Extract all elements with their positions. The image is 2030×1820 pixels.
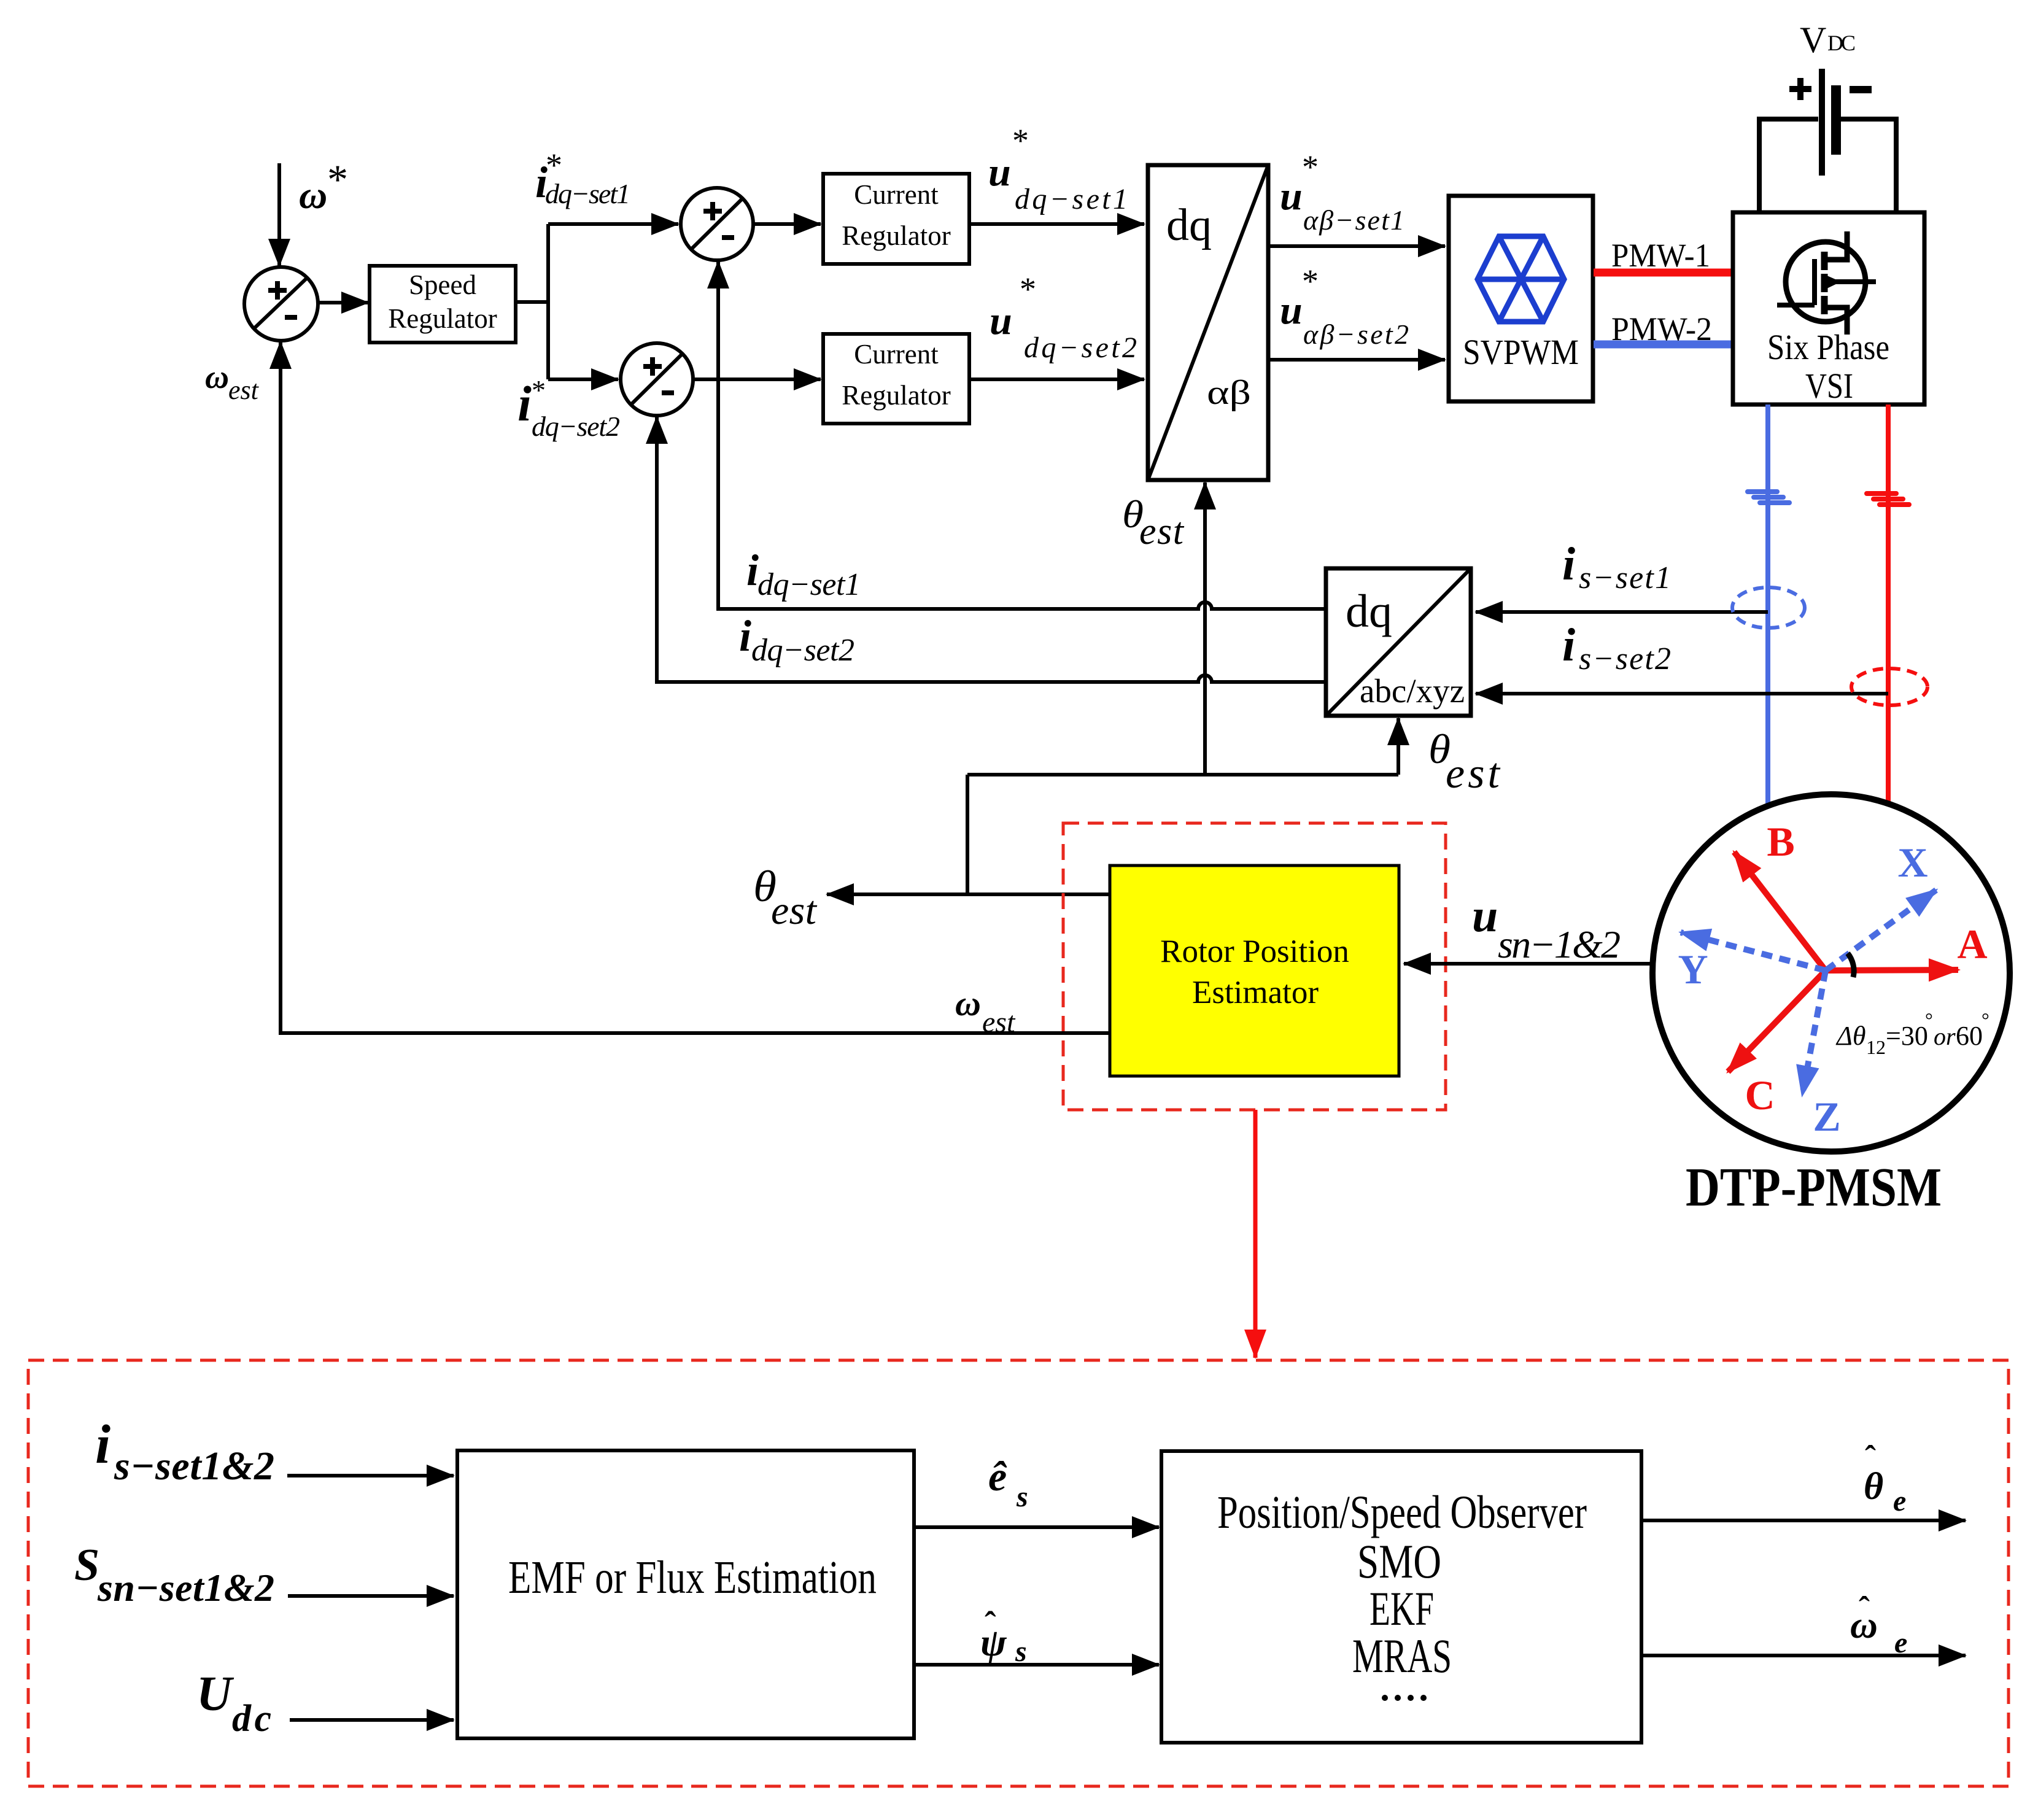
transistor MOSFET icon	[1777, 231, 1876, 335]
phasor X blue dashed	[1826, 890, 1936, 970]
node phase label C	[1745, 1072, 1775, 1118]
svg-text:°: °	[1925, 1009, 1933, 1031]
svg-text:i: i	[95, 1414, 110, 1475]
wire theta_e output	[1641, 1519, 1966, 1522]
block dq to alpha-beta transform	[1148, 165, 1268, 480]
wire omega_e output	[1641, 1654, 1966, 1657]
node phase label Y	[1678, 946, 1708, 993]
svg-text:u: u	[988, 150, 1011, 195]
node phase label B	[1767, 818, 1794, 865]
node e_s hat label	[988, 1453, 1028, 1513]
node PMW-1 label	[1611, 237, 1710, 274]
node phase label X	[1897, 839, 1927, 886]
svg-text:60: 60	[1956, 1021, 1983, 1051]
block EMF or Flux Estimation	[457, 1450, 914, 1738]
svg-text:EMF or Flux Estimation: EMF or Flux Estimation	[508, 1552, 877, 1603]
block Position/Speed Observer	[1161, 1451, 1641, 1743]
svg-text:αβ: αβ	[1207, 374, 1251, 412]
svg-text:B: B	[1767, 818, 1794, 865]
block Rotor Position Estimator	[1110, 865, 1399, 1076]
block SVPWM	[1449, 196, 1593, 401]
wire omega_est feedback to S1	[281, 342, 1110, 1033]
svg-text:est: est	[982, 1006, 1016, 1039]
summing junction S2	[681, 188, 753, 260]
phasor A red	[1826, 970, 1958, 970]
wire i_s-set1 into dq/abc block	[1476, 610, 1768, 614]
wire branch to S3	[548, 378, 618, 381]
svg-text:°: °	[1982, 1009, 1989, 1031]
wire PMW-1 red	[1594, 269, 1733, 277]
svg-text:u: u	[1280, 288, 1303, 333]
block Current Regulator 1	[823, 174, 969, 264]
svg-text:U: U	[196, 1667, 234, 1721]
svg-text:Current: Current	[854, 339, 939, 370]
wire U_dc input to EMF block	[290, 1718, 454, 1722]
svg-text:*: *	[327, 156, 348, 203]
node i_s-set1&2 label	[95, 1414, 274, 1489]
node VDC label	[1800, 20, 1856, 60]
svg-text:S: S	[74, 1540, 99, 1590]
sensor ellipse red on i_s-set2	[1851, 668, 1927, 705]
node omega* label	[299, 156, 348, 217]
node delta theta label	[1835, 1009, 1989, 1058]
svg-text:=30: =30	[1886, 1021, 1928, 1051]
svg-text:C: C	[1745, 1072, 1775, 1118]
svg-text:ω: ω	[205, 358, 229, 395]
wire branch to S2	[548, 222, 678, 226]
svg-text:*: *	[1020, 271, 1036, 308]
wire theta_est up into abc/xyz	[1397, 718, 1400, 775]
svg-text:SMO: SMO	[1357, 1535, 1441, 1588]
svg-text:sn−set1&2: sn−set1&2	[97, 1566, 274, 1609]
svg-text:e: e	[1893, 1485, 1906, 1517]
node omega_e hat label	[1850, 1590, 1907, 1659]
svg-text:Y: Y	[1678, 946, 1708, 993]
wire i_s-set2 into dq/abc block	[1476, 692, 1888, 695]
node S_sn-set1&2 label	[74, 1540, 274, 1609]
svg-text:dq−set2: dq−set2	[751, 633, 854, 668]
svg-text:i: i	[746, 546, 759, 595]
wire i_dq-set2 feedback	[657, 417, 1326, 682]
wire red arrow estimator to lower box	[1253, 1110, 1258, 1358]
wire S_sn input to EMF block	[288, 1594, 454, 1598]
svg-text:or: or	[1934, 1023, 1956, 1050]
svg-text:e: e	[1894, 1627, 1907, 1659]
svg-text:Z: Z	[1813, 1093, 1840, 1140]
motor DTP-PMSM circle	[1652, 794, 2010, 1152]
svg-text:ˆ: ˆ	[1865, 1439, 1876, 1476]
node DTP-PMSM label	[1686, 1157, 1942, 1218]
node u*ab-set1 label	[1280, 149, 1404, 236]
wire S3 to Current Regulator 2	[693, 378, 821, 381]
svg-text:i: i	[739, 611, 751, 660]
svg-text:DTP-PMSM: DTP-PMSM	[1686, 1157, 1942, 1218]
node i_s-set1 label	[1562, 538, 1671, 595]
wire blue phase lines VSI to motor	[1765, 405, 1770, 810]
battery VDC	[1789, 69, 1872, 176]
wire u_sn into estimator	[1404, 962, 1652, 966]
svg-text:V: V	[1800, 20, 1826, 60]
node theta_est label under dq/ab	[1122, 492, 1185, 552]
angle arc	[1848, 953, 1854, 977]
phasor Y blue dashed	[1681, 932, 1826, 970]
node omega_est label right	[955, 983, 1016, 1039]
node i*dq-set2 label	[517, 374, 620, 442]
node u*ab-set2 label	[1280, 263, 1409, 350]
sensor ellipse blue on i_s-set1	[1732, 587, 1805, 628]
sensor marks red	[1867, 494, 1909, 505]
svg-text:dq−set1: dq−set1	[757, 567, 861, 602]
wire Speed Regulator output to branch junction	[516, 300, 550, 304]
dashed box sensorless algorithm detail	[28, 1360, 2009, 1786]
node i_s-set2 label	[1562, 619, 1671, 676]
dashed box rotor position estimator	[1063, 823, 1446, 1110]
wire battery to VSI	[1759, 119, 1896, 212]
node i_dq-set2 label	[739, 611, 854, 668]
hexagon space-vector icon	[1478, 236, 1564, 322]
svg-text:dq−set1: dq−set1	[545, 178, 630, 209]
svg-text:VSI: VSI	[1805, 366, 1853, 406]
node theta_est label right of arrow	[1428, 726, 1501, 797]
svg-text:s: s	[1015, 1635, 1027, 1668]
block Six Phase VSI	[1733, 212, 1924, 406]
svg-text:Estimator: Estimator	[1192, 975, 1319, 1010]
svg-text:PMW-2: PMW-2	[1611, 311, 1712, 347]
node theta_e hat label	[1864, 1439, 1906, 1517]
block Speed Regulator	[370, 266, 516, 343]
svg-text:ê: ê	[988, 1453, 1007, 1500]
node PMW-2 label	[1611, 311, 1712, 347]
wire e_s to observer	[914, 1525, 1159, 1529]
svg-text:A: A	[1957, 921, 1987, 967]
svg-text:dq−set2: dq−set2	[532, 411, 620, 442]
svg-text:Rotor Position: Rotor Position	[1160, 934, 1349, 969]
svg-text:DC: DC	[1827, 31, 1856, 55]
svg-text:dq: dq	[1346, 586, 1392, 637]
wire branch vertical	[546, 224, 550, 379]
svg-text:ω: ω	[299, 173, 327, 217]
svg-text:Current: Current	[854, 179, 939, 210]
svg-text:u: u	[990, 298, 1012, 343]
wire dq/ab out2 to SVPWM	[1268, 358, 1445, 362]
svg-text:*: *	[1302, 149, 1319, 185]
svg-text:Regulator: Regulator	[842, 380, 950, 411]
wire S1 to Speed Regulator	[318, 301, 368, 304]
svg-text:s−set1: s−set1	[1579, 560, 1671, 595]
phasor C red	[1728, 970, 1826, 1072]
wire i_s input to EMF block	[287, 1474, 454, 1477]
svg-text:sn−1&2: sn−1&2	[1498, 923, 1621, 966]
svg-text:s: s	[1016, 1481, 1028, 1513]
block dq to abc/xyz transform	[1326, 568, 1471, 716]
node phase label A	[1957, 921, 1987, 967]
wire theta_est from estimator with left arrow	[827, 893, 1110, 896]
wire theta_est drop from distribution	[966, 775, 969, 894]
svg-text:s−set2: s−set2	[1579, 641, 1671, 676]
wire psi_s to observer	[914, 1663, 1159, 1667]
svg-text:i: i	[517, 376, 532, 432]
svg-text:i: i	[1562, 538, 1575, 590]
node u_sn-1&2 label	[1472, 890, 1621, 966]
svg-text:est: est	[1446, 750, 1501, 797]
wire S2 to Current Regulator 1	[753, 222, 821, 226]
svg-text:Six Phase: Six Phase	[1767, 327, 1889, 367]
svg-text:s−set1&2: s−set1&2	[114, 1444, 274, 1489]
svg-text:MRAS: MRAS	[1352, 1629, 1452, 1683]
svg-text:Speed: Speed	[409, 269, 476, 300]
svg-text:ˆ: ˆ	[1859, 1590, 1870, 1627]
wire dq/ab out1 to SVPWM	[1268, 244, 1445, 248]
node i*dq-set1 label	[535, 147, 630, 209]
svg-text:PMW-1: PMW-1	[1611, 237, 1710, 274]
wire red phase lines VSI to motor	[1886, 405, 1891, 808]
svg-text:ω: ω	[955, 983, 981, 1023]
node u*dq-set1 label	[988, 122, 1128, 215]
svg-text:X: X	[1897, 839, 1927, 886]
svg-text:est: est	[771, 888, 818, 933]
node phase label Z	[1813, 1093, 1840, 1140]
svg-text:Position/Speed Observer: Position/Speed Observer	[1217, 1487, 1587, 1538]
summing junction S3	[621, 343, 693, 416]
node i_dq-set1 label	[746, 546, 861, 602]
svg-text:Δθ: Δθ	[1835, 1021, 1865, 1051]
wire CR2 to dq/ab block	[969, 378, 1144, 381]
wire PMW-2 blue	[1594, 341, 1733, 349]
svg-text:est: est	[1139, 511, 1185, 552]
svg-text:ˆ: ˆ	[985, 1605, 996, 1643]
summing junction S1	[244, 267, 318, 341]
svg-text:u: u	[1472, 890, 1498, 942]
phasor B red	[1734, 852, 1826, 970]
svg-text:EKF: EKF	[1369, 1582, 1434, 1635]
wire i_dq-set1 feedback	[718, 261, 1326, 609]
phasor Z blue dashed	[1802, 970, 1826, 1095]
svg-text:Regulator: Regulator	[842, 220, 950, 251]
svg-text:12: 12	[1866, 1036, 1886, 1058]
node U_dc label	[196, 1667, 271, 1740]
wire CR1 to dq/ab block	[969, 222, 1144, 226]
svg-text:SVPWM: SVPWM	[1463, 332, 1579, 372]
node u*dq-set2 label	[990, 271, 1137, 364]
svg-text:dq: dq	[1166, 200, 1212, 250]
node omega_est label left	[205, 358, 260, 405]
svg-text:est: est	[228, 375, 260, 405]
svg-text:Regulator: Regulator	[388, 303, 497, 334]
wire omega* reference input	[277, 163, 281, 266]
svg-text:abc/xyz: abc/xyz	[1360, 672, 1465, 710]
wire theta_est distribution horizontal	[967, 773, 1398, 776]
wire theta_est up into dq/ab block	[1203, 482, 1207, 775]
sensor marks blue	[1748, 492, 1789, 503]
svg-text:u: u	[1280, 174, 1303, 219]
svg-text:*: *	[1012, 122, 1029, 159]
block Current Regulator 2	[823, 334, 969, 424]
svg-text:i: i	[1562, 619, 1575, 671]
svg-text:*: *	[532, 374, 546, 406]
svg-text:*: *	[1302, 263, 1319, 300]
node psi_s hat label	[980, 1605, 1027, 1668]
node theta_est output label	[753, 862, 818, 933]
